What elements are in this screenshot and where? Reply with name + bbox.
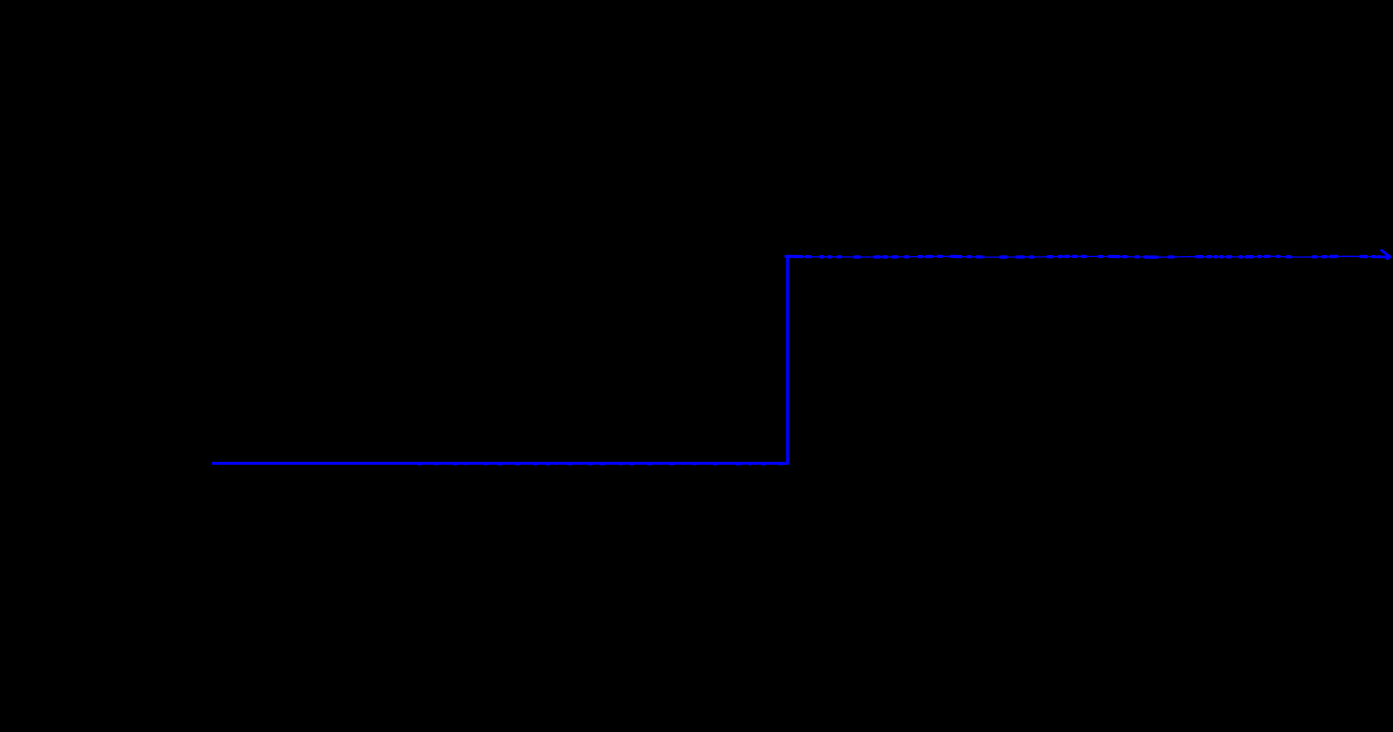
arrowhead — [1373, 250, 1390, 259]
lower step segment (wire) — [212, 463, 789, 464]
upper step segment, dotted (wire) — [786, 255, 1379, 258]
vertical step edge (wire) — [786, 255, 789, 464]
